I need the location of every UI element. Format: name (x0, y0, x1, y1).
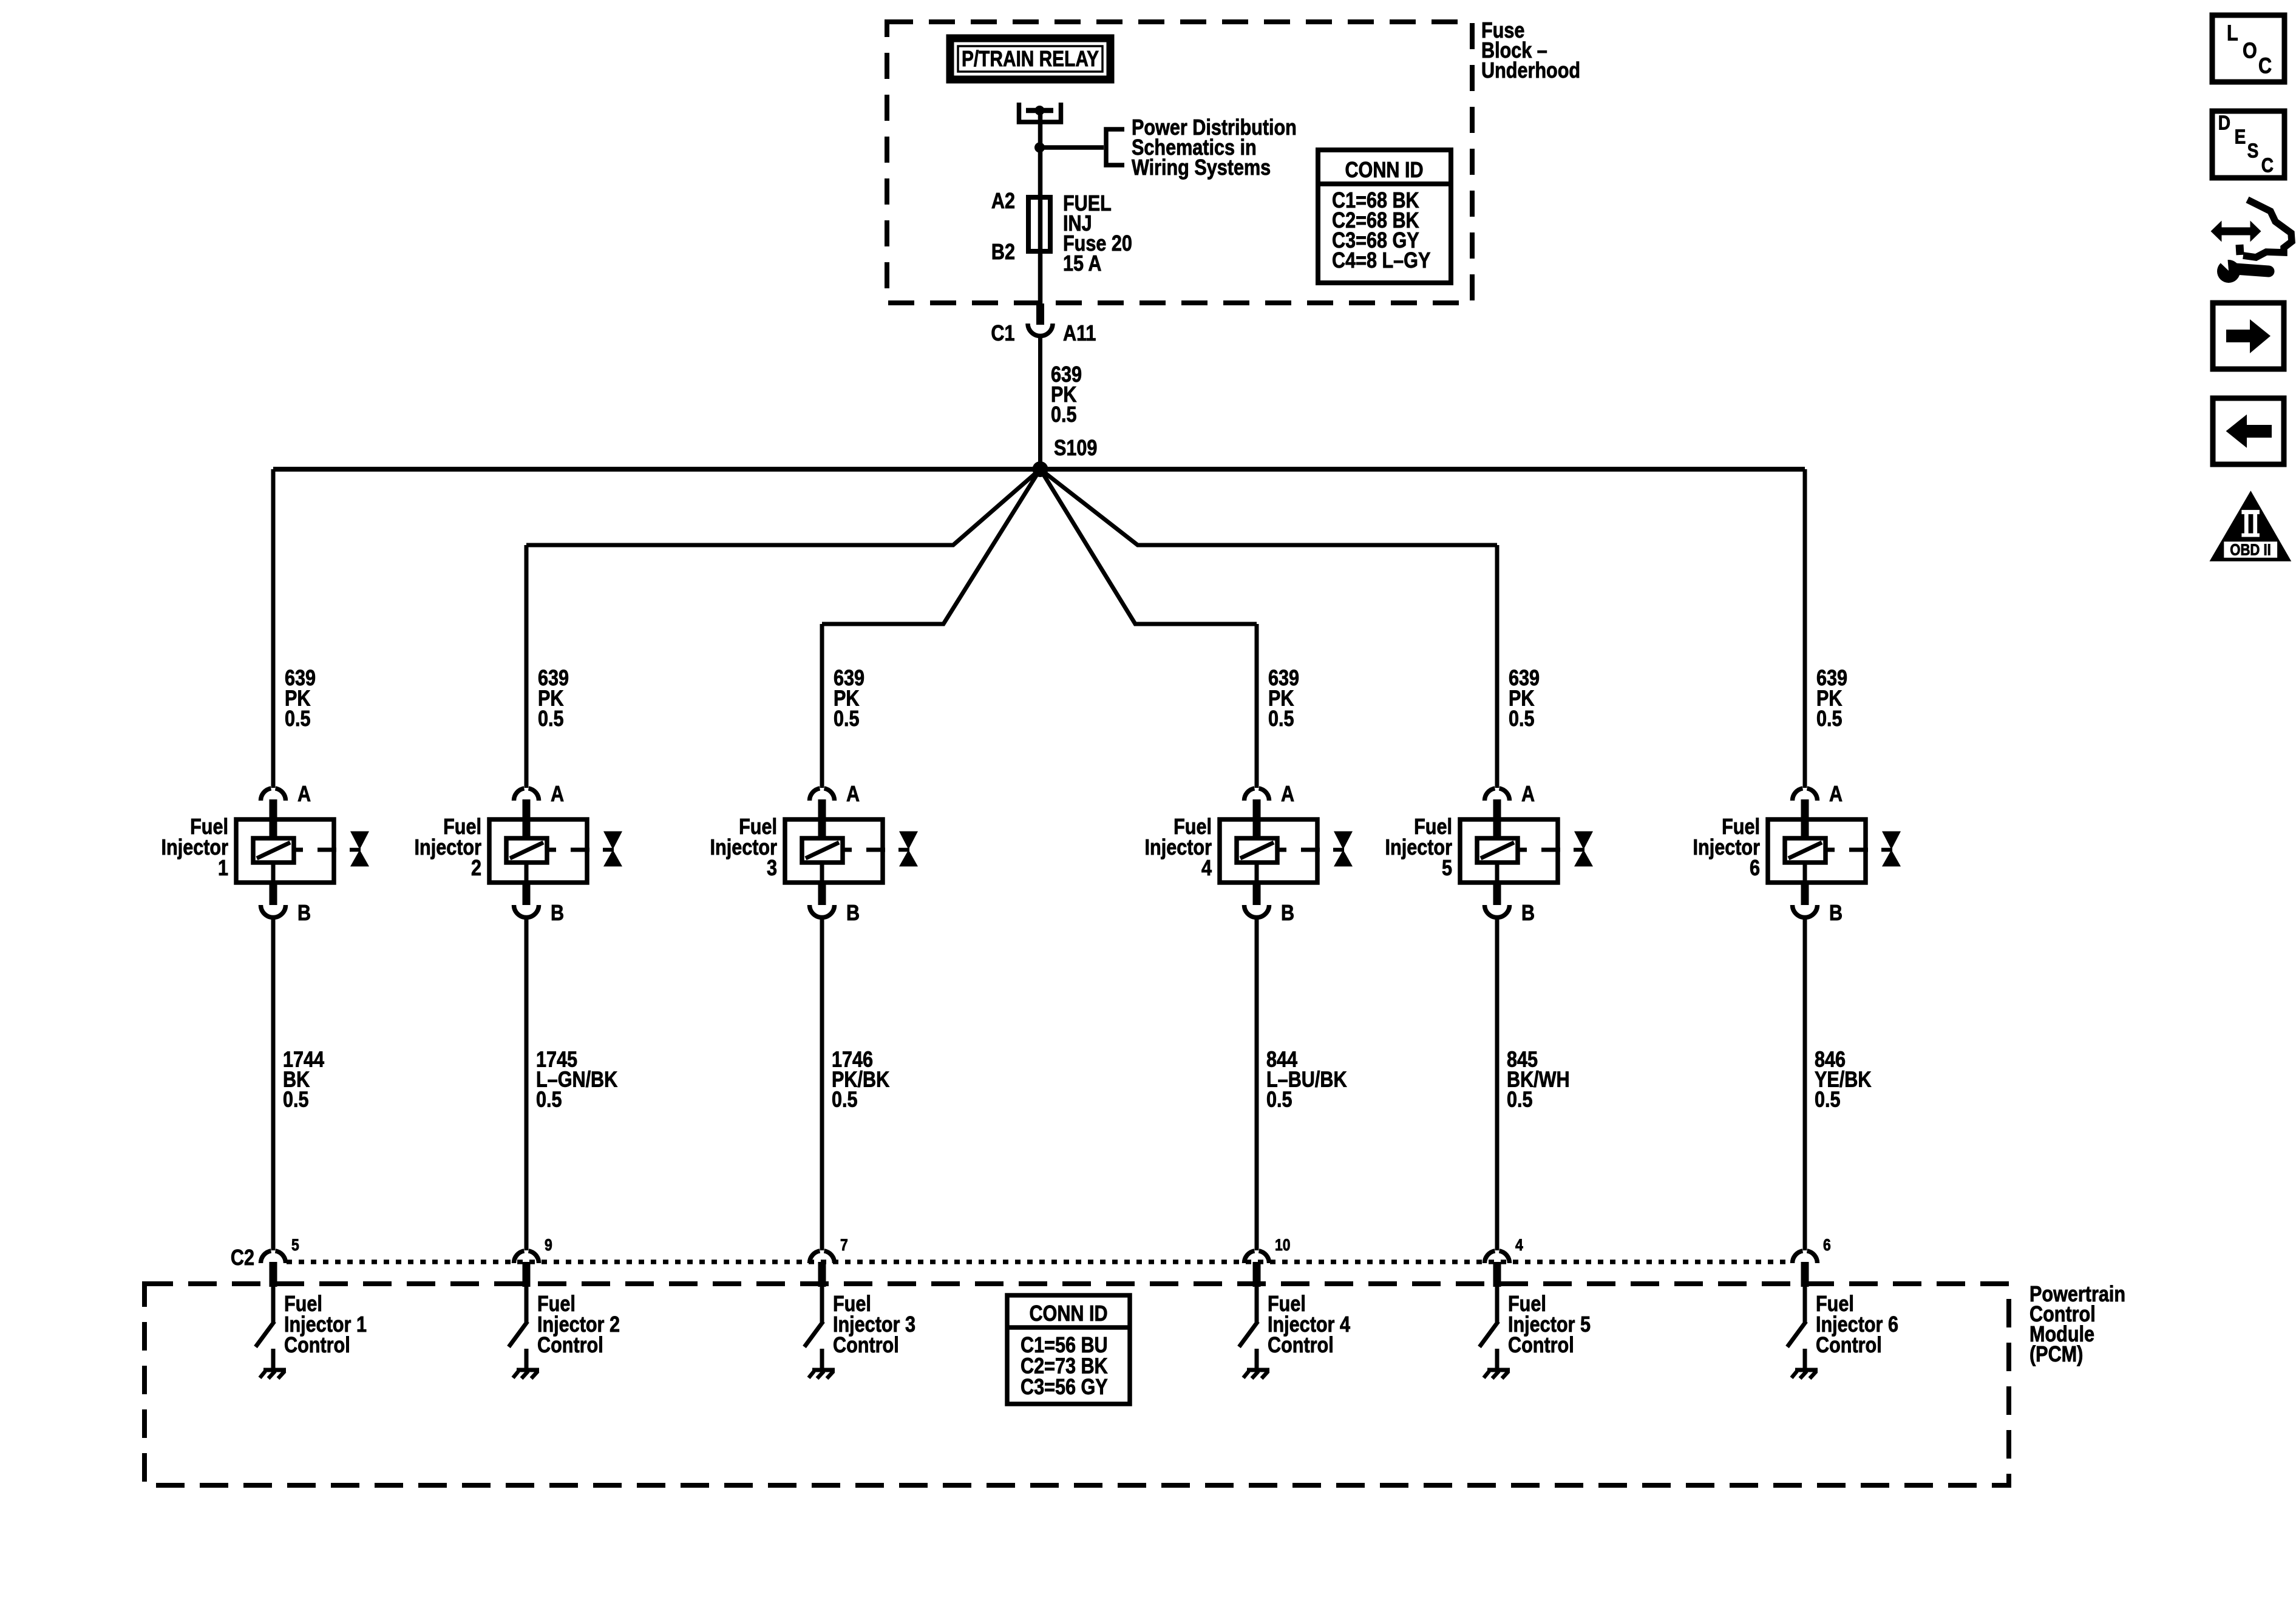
CONN ID table (PCM) (1007, 1295, 1130, 1404)
wire injector 1 to PCM (271, 916, 276, 1250)
wire injector 5 to PCM (1495, 916, 1500, 1250)
branch wire to injector 2 (526, 469, 1041, 545)
PCM driver switch col 2 (525, 1287, 529, 1322)
svg-text:C: C (2258, 54, 2272, 78)
svg-text:0.5: 0.5 (1507, 1088, 1533, 1112)
svg-text:CONN ID: CONN ID (1345, 158, 1423, 183)
svg-text:O: O (2243, 39, 2257, 63)
svg-text:5: 5 (291, 1236, 299, 1254)
svg-text:B: B (1521, 901, 1535, 926)
wire feed column 1 (271, 469, 276, 788)
PCM connector dotted line (287, 1259, 1790, 1264)
connector pin B col 4 (1253, 883, 1261, 905)
svg-text:B: B (1829, 901, 1843, 926)
svg-text:C: C (2261, 154, 2274, 177)
svg-text:Control: Control (284, 1334, 350, 1358)
svg-text:0.5: 0.5 (1816, 707, 1843, 731)
fuel injector 3 box (785, 819, 883, 883)
svg-text:B: B (1281, 901, 1294, 926)
svg-text:L: L (2227, 21, 2238, 46)
fuse block dashed box: Fuse Block - Underhood (887, 22, 1472, 303)
svg-text:2: 2 (471, 856, 481, 881)
wire injector 6 to PCM (1803, 916, 1807, 1250)
relay K: P/TRAIN RELAY name box (950, 38, 1110, 80)
svg-text:S109: S109 (1054, 436, 1097, 461)
svg-text:A: A (1829, 782, 1843, 807)
solenoid coil col 6 (1785, 838, 1826, 863)
svg-text:3: 3 (767, 856, 777, 881)
fuel injector 5 box (1460, 819, 1558, 883)
svg-text:A: A (846, 782, 860, 807)
branch wire to schematic note (1039, 145, 1104, 150)
fuel injector 1 box (236, 819, 334, 883)
svg-text:0.5: 0.5 (1051, 403, 1077, 427)
wire feed column 3 (820, 624, 824, 788)
connector pin B col 2 (523, 883, 531, 905)
svg-text:0.5: 0.5 (285, 707, 311, 731)
svg-text:6: 6 (1823, 1236, 1831, 1254)
PCM driver switch col 4 (1255, 1287, 1259, 1322)
svg-text:B2: B2 (991, 240, 1015, 265)
svg-text:10: 10 (1275, 1236, 1291, 1254)
wire fuse to connector C1 (1038, 251, 1043, 305)
PCM connector pin col 3 (810, 1251, 820, 1263)
PCM driver switch col 5 (1495, 1287, 1500, 1322)
sidebar icon: OBD II triangle (2210, 490, 2292, 561)
wire C1 to S109 (1038, 337, 1042, 469)
svg-text:1: 1 (218, 856, 228, 881)
connector pin A col 1 (261, 788, 271, 801)
fuel injector 2 box (489, 819, 587, 883)
PCM driver switch col 3 (820, 1287, 824, 1322)
svg-text:B: B (551, 901, 564, 926)
coil terminal ticks col 6 (1826, 848, 1835, 852)
svg-text:5: 5 (1442, 856, 1452, 881)
svg-text:A: A (551, 782, 564, 807)
splice S109 node (1033, 461, 1048, 477)
svg-text:0.5: 0.5 (1509, 707, 1535, 731)
coil terminal ticks col 4 (1277, 848, 1286, 852)
svg-text:A: A (1521, 782, 1535, 807)
svg-text:Control: Control (1816, 1334, 1882, 1358)
wire feed column 4 (1255, 624, 1259, 788)
svg-text:S: S (2247, 140, 2259, 162)
PCM driver switch col 6 (1803, 1287, 1807, 1322)
CONN ID table (fuse block) (1318, 150, 1451, 283)
svg-text:4: 4 (1201, 856, 1212, 881)
svg-text:Control: Control (1508, 1334, 1574, 1358)
svg-text:Control: Control (833, 1334, 899, 1358)
svg-text:0.5: 0.5 (283, 1088, 309, 1112)
wire junction to fuse (1038, 147, 1043, 197)
coil terminal ticks col 2 (547, 848, 556, 852)
sidebar icon: LOC box (2212, 15, 2284, 82)
coil terminal ticks col 3 (843, 848, 852, 852)
nozzle valve col 4 (1333, 848, 1344, 852)
svg-text:A11: A11 (1063, 322, 1096, 346)
nozzle valve col 2 (603, 848, 614, 852)
svg-text:0.5: 0.5 (538, 707, 564, 731)
svg-text:7: 7 (840, 1236, 848, 1254)
svg-text:CONN ID: CONN ID (1029, 1302, 1107, 1326)
PCM connector pin col 5 (1484, 1251, 1495, 1263)
svg-text:A: A (1281, 782, 1294, 807)
svg-text:9: 9 (545, 1236, 552, 1254)
svg-text:OBD II: OBD II (2230, 541, 2271, 559)
connector pin A col 3 (810, 788, 820, 801)
connector pin A col 2 (514, 788, 525, 801)
svg-text:0.5: 0.5 (1266, 1088, 1292, 1112)
PCM dashed box (144, 1284, 2009, 1485)
PCM driver switch col 1 (271, 1287, 276, 1322)
sidebar icon: forward arrow box (2213, 303, 2284, 369)
svg-text:0.5: 0.5 (536, 1088, 562, 1112)
svg-text:A2: A2 (991, 189, 1015, 214)
sidebar icon: adjust/repair (hand with arrow and wrench) (2211, 221, 2261, 242)
PCM connector pin col 1 (261, 1251, 271, 1263)
fuel injector 4 box (1220, 819, 1317, 883)
junction node (1034, 143, 1045, 153)
svg-text:15 A: 15 A (1063, 252, 1101, 276)
svg-text:Underhood: Underhood (1481, 59, 1580, 83)
svg-text:6: 6 (1750, 856, 1760, 881)
wire injector 3 to PCM (820, 916, 824, 1250)
note bracket (1106, 129, 1124, 165)
ground col 1 (271, 1349, 276, 1371)
connector C1/A11: cup (1028, 324, 1053, 336)
svg-text:0.5: 0.5 (832, 1088, 858, 1112)
wire feed column 6 (1803, 469, 1807, 788)
svg-text:P/TRAIN RELAY: P/TRAIN RELAY (962, 47, 1099, 72)
sidebar icon: back arrow box (2213, 398, 2284, 464)
PCM connector pin col 6 (1793, 1251, 1803, 1263)
svg-text:A: A (297, 782, 311, 807)
fuse F: FUEL INJ Fuse 20 15 A (1028, 197, 1050, 251)
solenoid coil col 4 (1237, 838, 1277, 863)
svg-text:Control: Control (1268, 1334, 1334, 1358)
svg-text:0.5: 0.5 (1815, 1088, 1841, 1112)
bus wire from splice, left to injector 1, right to injector 6 (273, 467, 1805, 472)
ground col 6 (1803, 1349, 1807, 1371)
wire feed column 2 (525, 545, 529, 788)
connector pin B col 1 (270, 883, 277, 905)
nozzle valve col 3 (898, 848, 909, 852)
wire injector 2 to PCM (525, 916, 529, 1250)
svg-text:Control: Control (537, 1334, 603, 1358)
svg-text:B: B (846, 901, 860, 926)
svg-text:4: 4 (1515, 1236, 1523, 1254)
svg-text:E: E (2235, 126, 2246, 148)
connector pin A col 6 (1793, 788, 1803, 801)
nozzle valve col 1 (350, 848, 361, 852)
wire injector 4 to PCM (1255, 916, 1259, 1250)
sidebar icon: DESC box (2212, 111, 2284, 178)
solenoid coil col 1 (253, 838, 294, 863)
svg-text:C3=56 GY: C3=56 GY (1021, 1375, 1108, 1400)
svg-text:0.5: 0.5 (1268, 707, 1294, 731)
solenoid coil col 5 (1477, 838, 1518, 863)
ground col 2 (525, 1349, 529, 1371)
svg-text:(PCM): (PCM) (2029, 1343, 2083, 1367)
wire feed column 5 (1495, 545, 1500, 788)
svg-text:Wiring Systems: Wiring Systems (1132, 156, 1271, 180)
connector pin A col 4 (1245, 788, 1255, 801)
ground col 3 (820, 1349, 824, 1371)
ground col 5 (1495, 1349, 1500, 1371)
svg-text:C4=8 L–GY: C4=8 L–GY (1332, 249, 1430, 273)
wire relay to junction (1038, 113, 1043, 147)
relay contact terminal bracket (1019, 103, 1061, 122)
connector pin B col 3 (818, 883, 826, 905)
nozzle valve col 5 (1574, 848, 1584, 852)
connector C1/A11: stub (1036, 303, 1044, 325)
coil terminal ticks col 1 (294, 848, 303, 852)
svg-text:B: B (297, 901, 311, 926)
fuel injector 6 box (1768, 819, 1866, 883)
svg-text:0.5: 0.5 (834, 707, 860, 731)
solenoid coil col 3 (802, 838, 843, 863)
nozzle valve col 6 (1881, 848, 1892, 852)
svg-text:C2: C2 (231, 1246, 254, 1270)
ground col 4 (1255, 1349, 1259, 1371)
svg-text:C1: C1 (991, 322, 1014, 346)
svg-text:D: D (2218, 112, 2230, 134)
solenoid coil col 2 (506, 838, 547, 863)
branch wire to injector 5 (1041, 469, 1498, 545)
coil terminal ticks col 5 (1518, 848, 1527, 852)
relay contact bar (1026, 108, 1053, 114)
PCM connector pin col 2 (514, 1251, 525, 1263)
connector pin B col 5 (1493, 883, 1501, 905)
connector pin A col 5 (1484, 788, 1495, 801)
PCM connector pin col 4 (1245, 1251, 1255, 1263)
branch wire to injector 4 (1041, 469, 1257, 624)
branch wire to injector 3 (822, 469, 1041, 624)
connector pin B col 6 (1801, 883, 1809, 905)
